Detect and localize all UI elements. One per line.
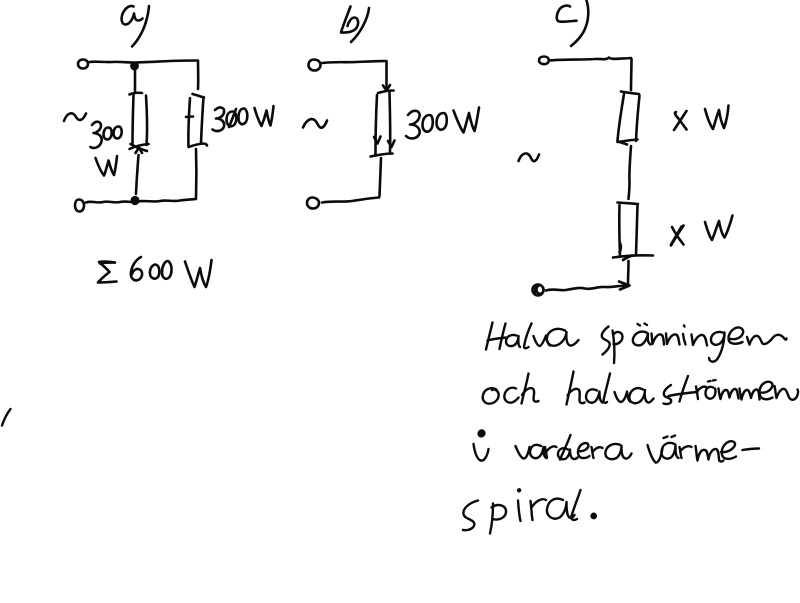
- resistor R2 300W (right, circuit a): [186, 94, 207, 147]
- resistor R1 300W (left, circuit a): [130, 93, 149, 153]
- handwritten line 3: i: [474, 429, 489, 460]
- handwritten line 2: halva: [567, 372, 654, 405]
- terminal O5 (circuit c top): [539, 57, 549, 65]
- terminal O3 (circuit b top): [309, 60, 321, 71]
- wire (a right branch down): [197, 61, 200, 89]
- total label Σ 600 W: [98, 257, 212, 287]
- wire (b down to R3) with arrowhead: [383, 62, 390, 91]
- handwritten line 3: värme-: [648, 436, 760, 463]
- wire (b bottom): [322, 198, 379, 203]
- handwritten line 2: strömmen: [664, 376, 799, 404]
- label b): [341, 7, 369, 43]
- terminal O1 (circuit a top): [78, 60, 88, 69]
- wire (R2 to bottom): [195, 149, 198, 198]
- handwritten line 2: och: [483, 374, 539, 404]
- label a): [122, 6, 149, 47]
- resistor R3 300W (circuit b): [371, 91, 395, 157]
- label c): [557, 1, 589, 47]
- label x W (R5): [671, 216, 733, 246]
- resistor R5 xW (circuit c bottom): [613, 203, 653, 261]
- wire (a bottom): [86, 199, 196, 203]
- AC source symbol ~ (circuit b): [303, 119, 327, 128]
- terminal O6 (circuit c bottom, scribbled): [533, 285, 544, 296]
- wire (c top): [549, 58, 631, 61]
- stray mark slash (bottom left): [2, 409, 11, 426]
- terminal O2 (circuit a bottom): [75, 200, 84, 212]
- AC source symbol ~ (circuit a): [64, 113, 86, 121]
- wire (c down to R4): [630, 59, 633, 90]
- wire (a top): [89, 61, 198, 63]
- value label W (below 300): [96, 156, 118, 176]
- wire (R4 to R5): [629, 146, 632, 199]
- wire (c bottom) with arrowhead: [546, 282, 630, 291]
- value label 300 (left of R1): [91, 122, 122, 148]
- junction dot (a top): [130, 62, 139, 71]
- label x W (R4): [674, 106, 729, 131]
- handwritten line 1: Halva: [486, 323, 579, 350]
- handwritten line 3: vardera: [516, 435, 632, 460]
- handwritten line 4: spiral.: [463, 488, 597, 533]
- wire (b top): [322, 61, 387, 63]
- wire (R3 to bottom): [380, 158, 382, 196]
- junction dot (a bottom): [130, 196, 139, 205]
- handwritten line 1: spänningen: [602, 324, 787, 364]
- value label 300W (right of R2): [213, 106, 274, 131]
- AC source symbol ~ (circuit c): [519, 153, 540, 161]
- resistor R4 xW (circuit c top): [618, 92, 640, 145]
- terminal O4 (circuit b bottom): [307, 198, 319, 209]
- wire (a junction to R1): [134, 70, 137, 91]
- value label 300W (circuit b): [406, 108, 479, 139]
- wire (R1 to bottom junction): [136, 155, 139, 194]
- wire (R5 to bottom): [627, 261, 630, 284]
